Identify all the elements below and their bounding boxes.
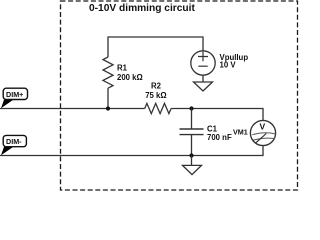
- svg-text:C1: C1: [207, 124, 218, 133]
- svg-text:V: V: [260, 122, 266, 132]
- plus sign: [198, 52, 208, 61]
- svg-text:DIM+: DIM+: [6, 90, 23, 99]
- svg-text:10 V: 10 V: [220, 61, 237, 70]
- svg-text:R1: R1: [117, 64, 128, 73]
- wire: R2 to VM1 top: [171, 109, 263, 121]
- ground under Vpullup: [194, 82, 213, 91]
- resistor R1: [103, 57, 113, 88]
- DIM- port tag: [1, 135, 26, 155]
- resistor R2: [145, 103, 171, 113]
- wire: top rail R1 to Vpullup: [108, 37, 203, 57]
- svg-text:DIM-: DIM-: [6, 137, 22, 146]
- wire: DIM+ net: [0, 108, 145, 110]
- wire: R1 bottom lead: [107, 88, 109, 108]
- ground under C1: [183, 165, 202, 174]
- junction C1 bottom: [189, 153, 193, 157]
- svg-text:75 kΩ: 75 kΩ: [145, 91, 166, 100]
- enclosure dashed box: [61, 1, 298, 190]
- wire: C1 to ground: [191, 156, 193, 166]
- svg-text:700 nF: 700 nF: [207, 133, 232, 142]
- svg-text:VM1: VM1: [233, 128, 248, 137]
- minus sign: [198, 65, 207, 67]
- voltmeter VM1: [250, 120, 275, 145]
- wire: DIM- net bottom rail: [0, 146, 263, 156]
- wire: Vpullup bottom lead: [202, 75, 204, 82]
- voltage source Vpullup: [191, 51, 215, 75]
- junction R1/DIM+: [106, 106, 110, 110]
- svg-text:0-10V dimming circuit: 0-10V dimming circuit: [89, 3, 195, 14]
- DIM+ port tag: [1, 88, 28, 108]
- svg-text:R2: R2: [151, 82, 162, 91]
- svg-text:200 kΩ: 200 kΩ: [117, 73, 143, 82]
- capacitor C1: [180, 109, 204, 156]
- junction C1 top: [189, 106, 193, 110]
